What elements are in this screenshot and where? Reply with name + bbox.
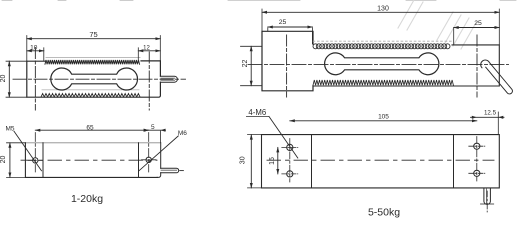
svg-text:130: 130	[377, 6, 389, 13]
svg-text:12: 12	[143, 46, 150, 52]
svg-text:5-50kg: 5-50kg	[368, 206, 400, 218]
svg-text:M5: M5	[5, 125, 14, 132]
svg-text:75: 75	[89, 30, 97, 39]
svg-text:25: 25	[279, 19, 287, 26]
svg-text:5: 5	[151, 124, 155, 131]
svg-text:12.5: 12.5	[484, 109, 497, 116]
svg-text:20: 20	[0, 156, 7, 164]
svg-text:65: 65	[86, 124, 94, 131]
svg-text:30: 30	[240, 156, 247, 164]
svg-text:20: 20	[0, 75, 7, 83]
svg-text:4-M6: 4-M6	[248, 108, 266, 117]
svg-text:105: 105	[378, 114, 389, 121]
svg-text:1-20kg: 1-20kg	[71, 193, 103, 205]
svg-text:15: 15	[269, 157, 276, 165]
svg-text:10: 10	[30, 44, 38, 51]
svg-text:M6: M6	[178, 130, 187, 137]
svg-text:22: 22	[242, 60, 249, 68]
svg-text:25: 25	[474, 20, 482, 27]
